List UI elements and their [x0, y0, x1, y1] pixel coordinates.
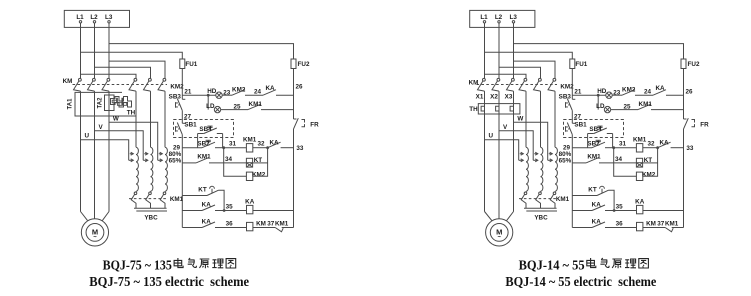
80%% tap stub winding 3 — [549, 153, 553, 155]
wire: phase 1 into motor — [485, 212, 492, 221]
wire: to KM coil — [605, 227, 637, 229]
svg-text:KM2: KM2 — [252, 171, 266, 178]
svg-text:32: 32 — [647, 141, 655, 148]
svg-text:TA1: TA1 — [68, 98, 74, 110]
contact KA (NO) row 29 — [658, 142, 671, 148]
svg-text:36: 36 — [616, 220, 624, 227]
wire: L3 branch to KM2 contact c — [109, 61, 165, 78]
svg-text:HD: HD — [207, 88, 217, 95]
autotransformer YBC winding 2 — [541, 147, 543, 191]
svg-text:TA2: TA2 — [98, 97, 104, 109]
contactor KM2 bypass contact c — [163, 78, 166, 81]
terminal circle L1 — [483, 21, 485, 23]
wire: row 21 to junction — [572, 94, 606, 96]
wire: L2 branch to KM2 contact b — [95, 67, 151, 78]
star contact KM1 winding 3 — [554, 190, 556, 193]
control rail right (from FU2) — [683, 69, 685, 120]
svg-text:KM1: KM1 — [170, 196, 184, 203]
autotransformer YBC winding 1 — [136, 147, 138, 191]
control rail left (from FU1) — [571, 69, 573, 100]
svg-text:FR: FR — [700, 122, 709, 129]
star contact KM1 winding 3 — [164, 190, 166, 193]
wire: phase L1 vertical drop — [80, 23, 82, 79]
wire: to KT coil — [599, 162, 636, 164]
svg-text:SB3: SB3 — [169, 94, 182, 101]
wire: LD branch down — [597, 95, 599, 109]
contact KA (NO) row 36 — [592, 222, 605, 228]
wire: to KM coil — [215, 227, 247, 229]
wire: KA coil to rail — [643, 210, 684, 212]
thermal relay FR contact (NC) on right rail — [684, 118, 687, 120]
80%% tap stub winding 2 — [534, 153, 538, 155]
svg-text:35: 35 — [226, 203, 234, 210]
pushbutton SB2 (NO start) — [592, 142, 605, 148]
contact KA (NO) row 29 — [268, 142, 281, 148]
contact KM1 (NO) in LD row — [638, 104, 651, 110]
svg-text:65%: 65% — [559, 158, 572, 165]
relay coil KA — [637, 205, 643, 213]
indicator lamp HD — [606, 92, 612, 98]
wire: L3 branch to fuse FU2 — [109, 44, 294, 59]
80%% tap stub winding 3 — [159, 153, 163, 155]
svg-text:KA: KA — [659, 139, 669, 146]
svg-text:L3: L3 — [510, 14, 518, 21]
contactor KM main contact phase 3 — [107, 78, 110, 81]
svg-text:KM1: KM1 — [275, 220, 289, 227]
wire U: motor tap to 65% tap of coil 1 — [81, 140, 129, 161]
wire V: motor tap to 65% tap of coil 2 — [499, 131, 533, 161]
80%% tap stub winding 1 — [520, 153, 524, 155]
svg-text:KA: KA — [265, 85, 275, 92]
contactor KM main contact phase 3 — [512, 78, 515, 81]
pushbutton SB4 (NO) — [594, 128, 607, 134]
pushbutton SB3 (NC, on rail) — [572, 98, 575, 100]
star contact KM1 winding 1 — [135, 190, 137, 193]
wire: KM2 coil right + up to node 32 — [643, 148, 658, 177]
svg-text:65%: 65% — [169, 158, 182, 165]
svg-text:LD: LD — [596, 103, 605, 110]
motor M inner circle — [86, 224, 104, 242]
pushbutton SB2 (NO start) — [202, 142, 215, 148]
svg-text:34: 34 — [615, 156, 623, 163]
wire: phase L3 vertical drop — [108, 23, 110, 79]
star point bar — [134, 207, 167, 209]
svg-text:KM1: KM1 — [633, 136, 647, 143]
parallel pushbutton SB4 branch — [587, 134, 589, 148]
svg-text:34: 34 — [225, 156, 233, 163]
control rail left (from FU1) — [181, 69, 183, 100]
contactor KM main contact phase 2 — [93, 78, 96, 81]
wire: HD row cont. — [635, 94, 653, 96]
svg-text:37: 37 — [657, 220, 665, 227]
wire: SB2 to node 31 — [215, 147, 224, 149]
junction node HD/LD — [207, 94, 210, 97]
svg-text:25: 25 — [233, 104, 241, 111]
TH heater element phase 3 — [510, 106, 513, 111]
wire: KT-delay row from rail — [182, 195, 207, 197]
contactor coil KM1 — [246, 144, 252, 152]
wire: KM coil to KM1 interlock — [253, 227, 275, 229]
svg-text:~: ~ — [93, 235, 97, 241]
RIGHT DIAGRAM: BQJ-14~55 starter schematic — [469, 10, 710, 288]
autotransformer YBC winding 1 — [526, 147, 528, 191]
KM1 star contacts dashed link — [129, 198, 167, 200]
svg-text:L1: L1 — [76, 14, 84, 21]
svg-text:TH: TH — [127, 110, 136, 117]
contactor KM main contact phase 1 — [483, 78, 486, 81]
svg-text:KA: KA — [202, 218, 212, 225]
svg-text:SB2: SB2 — [587, 140, 600, 147]
svg-text:FU2: FU2 — [688, 61, 700, 68]
wire: 31 to KM1 coil — [224, 147, 247, 149]
svg-text:~: ~ — [497, 235, 501, 241]
svg-text:KM1: KM1 — [243, 136, 257, 143]
wire: KM1 coil to node 32 — [643, 147, 658, 149]
time-delay contact KT (NC, delayed) — [597, 190, 609, 195]
svg-text:37: 37 — [267, 220, 275, 227]
wire: phase 1 conductor to motor — [80, 91, 82, 211]
wire: KM coil to KM1 interlock — [643, 227, 665, 229]
junction node 32 — [266, 146, 269, 149]
contact KA (NO) row 35 — [592, 205, 605, 211]
wire: KT contact to KA row — [219, 190, 225, 210]
svg-text:KM: KM — [256, 220, 266, 227]
svg-text:LD: LD — [206, 103, 215, 110]
wire: phase 3 into motor — [102, 212, 109, 221]
time relay coil KT — [246, 158, 252, 167]
svg-text:BQJ-75 ~ 135 electric scheme: BQJ-75 ~ 135 electric scheme — [89, 274, 249, 289]
wire: phase 3 into motor — [507, 212, 514, 221]
svg-text:U: U — [85, 133, 90, 140]
wire V: motor tap to 65% tap of coil 2 — [95, 131, 144, 161]
80%% tap stub winding 1 — [130, 153, 134, 155]
svg-text:SB4: SB4 — [589, 126, 602, 133]
contactor KM2 bypass contact c — [553, 78, 556, 81]
LEFT DIAGRAM: BQJ-75~135 starter schematic — [63, 10, 320, 288]
contact KM2 (NO) in HD row — [622, 90, 635, 96]
indicator lamp LD — [604, 106, 610, 112]
star point bar 2 — [526, 210, 557, 212]
wire: phase 1 conductor to motor — [484, 91, 486, 211]
contactor KM main contact phase 2 — [497, 78, 500, 81]
pushbutton SB3 (NC, on rail) — [182, 98, 185, 100]
svg-text:SB3: SB3 — [559, 94, 572, 101]
star contact KM1 winding 1 — [525, 190, 527, 193]
wire: KM2 coil right + up to node 32 — [253, 148, 268, 177]
time relay coil KT — [636, 158, 642, 167]
star contact KM1 winding 2 — [150, 190, 152, 193]
svg-text:SB4: SB4 — [199, 126, 212, 133]
interlock contact KM1 (NC) — [665, 228, 673, 232]
svg-text:FU1: FU1 — [575, 61, 587, 68]
wire: node31 down to KM2 coil — [614, 148, 637, 177]
wire: SB2 to node 31 — [605, 147, 614, 149]
current transformer TA1 box — [75, 92, 136, 116]
svg-text:31: 31 — [229, 141, 237, 148]
autotransformer YBC winding 2 — [151, 147, 153, 191]
svg-text:L2: L2 — [495, 14, 503, 21]
svg-text:24: 24 — [644, 88, 652, 95]
wire: phase 1 into motor — [81, 212, 88, 221]
wire W: motor tap to 65% tap of coil 3 — [514, 122, 548, 160]
svg-text:KM2: KM2 — [642, 171, 656, 178]
svg-text:BQJ-75 ~ 135: BQJ-75 ~ 135 — [103, 257, 173, 272]
wire: HD row — [612, 94, 622, 96]
svg-text:KT: KT — [588, 187, 597, 194]
svg-text:SB1: SB1 — [184, 122, 197, 129]
svg-text:W: W — [517, 115, 523, 122]
wire: LD row — [611, 109, 638, 111]
wire: row 36 from rail — [572, 227, 592, 229]
wire: row 21 to junction — [182, 94, 216, 96]
time-delay contact KT (NC, delayed) — [207, 190, 219, 195]
svg-text:SB1: SB1 — [574, 122, 587, 129]
pushbutton SB4 (NO) — [204, 128, 217, 134]
svg-text:26: 26 — [295, 84, 303, 91]
wire: KA to rail node 33 — [281, 147, 294, 149]
svg-text:26: 26 — [685, 89, 693, 96]
svg-text:KA: KA — [655, 85, 665, 92]
svg-text:KM: KM — [646, 220, 656, 227]
junction node HD/LD — [597, 94, 600, 97]
parallel pushbutton SB4 branch — [197, 134, 199, 148]
svg-text:KM1: KM1 — [639, 101, 653, 108]
current transformer TA2 box — [105, 95, 115, 111]
80%% tap stub winding 2 — [144, 153, 148, 155]
fuse FU1 — [180, 59, 185, 69]
svg-text:31: 31 — [619, 141, 627, 148]
wire: KA to rail node 33 — [671, 147, 684, 149]
svg-text:25: 25 — [623, 104, 631, 111]
svg-text:21: 21 — [574, 89, 582, 96]
KM contact group dashed link — [477, 84, 558, 86]
terminal circle L3 — [512, 21, 514, 23]
contact KM1 (NO) in LD row — [248, 104, 261, 110]
contactor KM2 bypass contact b — [149, 78, 152, 81]
svg-text:21: 21 — [184, 89, 192, 96]
TH heater element phase 1 — [481, 106, 484, 111]
wire: L1 branch to KM2 contact a — [485, 74, 527, 78]
svg-text:L2: L2 — [90, 14, 98, 21]
svg-text:33: 33 — [686, 145, 694, 152]
wire: LD branch down — [207, 95, 209, 109]
svg-text:TH: TH — [469, 106, 478, 113]
wire: phase 2 conductor to motor — [498, 91, 500, 219]
contactor coil KM — [637, 222, 643, 230]
contact KM2 (NO) in HD row — [232, 90, 245, 96]
wire: row 36 from rail — [182, 227, 202, 229]
svg-text:KA: KA — [592, 201, 602, 208]
svg-text:36: 36 — [226, 220, 234, 227]
contactor KM2 bypass contact a — [524, 78, 527, 81]
fuse FU2 — [291, 59, 296, 69]
terminal circle L1 — [79, 21, 81, 23]
svg-text:KA: KA — [202, 201, 212, 208]
svg-text:X2: X2 — [490, 94, 498, 101]
wire: LD row to rail — [651, 109, 684, 111]
wire: HD row cont. — [245, 94, 263, 96]
terminal circle L2 — [498, 21, 500, 23]
svg-text:FR: FR — [310, 122, 319, 129]
svg-text:FU2: FU2 — [298, 61, 310, 68]
junction node 31 — [222, 146, 225, 149]
motor M outer circle — [81, 219, 108, 246]
wire: to KT coil — [209, 162, 246, 164]
wire: KT-delay row from rail — [572, 195, 597, 197]
wire: L1 branch to fuse FU1 — [485, 52, 573, 59]
relay coil KA — [247, 205, 253, 213]
svg-text:KM1: KM1 — [197, 154, 211, 161]
wire U: motor tap to 65% tap of coil 1 — [485, 140, 519, 161]
dashed enclosure SB1/SB4 — [564, 120, 624, 138]
svg-text:KM: KM — [63, 78, 73, 85]
wire: phase 3 conductor to motor — [108, 91, 110, 211]
wire: KT contact to KA row — [609, 190, 615, 210]
wire: row 35 from rail — [572, 210, 592, 212]
svg-text:KA: KA — [269, 139, 279, 146]
svg-text:BQJ-14 ~ 55: BQJ-14 ~ 55 — [519, 257, 585, 272]
indicator lamp LD — [214, 106, 220, 112]
svg-text:W: W — [113, 115, 119, 122]
svg-text:L1: L1 — [480, 14, 488, 21]
right diagram: three-phase supply terminal box L1 L2 L3 — [470, 10, 535, 27]
svg-text:KM1: KM1 — [249, 101, 263, 108]
thermal relay FR contact (NC) on right rail — [294, 118, 297, 120]
wire: LD row — [221, 109, 248, 111]
svg-text:KA: KA — [245, 198, 255, 205]
star contact KM1 winding 2 — [540, 190, 542, 193]
wire: KT coil right — [643, 162, 658, 164]
interlock contact KM1 (NC) — [275, 228, 283, 232]
wire: L1 branch to KM2 contact a — [81, 74, 137, 78]
autotransformer YBC winding 3 — [555, 147, 557, 191]
contact KM1 (NO) row 34 — [196, 157, 209, 163]
contact KA (NO) in HD row — [263, 90, 276, 96]
contactor KM main contact phase 1 — [79, 78, 82, 81]
svg-text:KT: KT — [198, 187, 207, 194]
svg-text:L3: L3 — [105, 14, 113, 21]
svg-text:BQJ-14 ~ 55 electric scheme: BQJ-14 ~ 55 electric scheme — [505, 274, 656, 289]
svg-text:KM: KM — [469, 79, 479, 86]
contactor coil KM2 — [246, 172, 252, 180]
fuse FU1 — [570, 59, 575, 69]
svg-text:KM1: KM1 — [587, 154, 601, 161]
svg-text:HD: HD — [597, 88, 607, 95]
pushbutton SB1 (NC, on rail) — [572, 122, 575, 124]
contactor coil KM2 — [636, 172, 642, 180]
contact KA (NO) row 36 — [202, 222, 215, 228]
junction node 31 — [612, 146, 615, 149]
wire: phase L3 vertical drop — [513, 23, 515, 79]
contactor KM2 bypass contact a — [134, 78, 137, 81]
control rail right (from FU2) — [293, 69, 295, 120]
svg-text:35: 35 — [616, 203, 624, 210]
svg-text:YBC: YBC — [144, 215, 158, 222]
KM1 star contacts dashed link — [519, 198, 557, 200]
wire: node31 down to KM2 coil — [224, 148, 247, 177]
wire: row 34 from rail — [182, 162, 196, 164]
svg-text:32: 32 — [257, 141, 265, 148]
svg-text:KA: KA — [635, 198, 645, 205]
wire: 31 to KM1 coil — [614, 147, 637, 149]
wire: phase L2 vertical drop — [94, 23, 96, 79]
pushbutton SB1 (NC, on rail) — [182, 122, 185, 124]
contactor coil KM — [247, 222, 253, 230]
svg-text:24: 24 — [254, 88, 262, 95]
star point bar — [524, 207, 557, 209]
wire W: motor tap to 65% tap of coil 3 — [109, 122, 158, 160]
svg-text:FU1: FU1 — [185, 61, 197, 68]
svg-text:X3: X3 — [505, 94, 513, 101]
wire: HD row to rail — [666, 94, 684, 96]
wire: KA coil to rail — [253, 210, 294, 212]
wire: phase L2 vertical drop — [498, 23, 500, 79]
contactor coil KM1 — [636, 144, 642, 152]
dashed enclosure SB1/SB4 — [174, 120, 234, 138]
wire: L3 branch to fuse FU2 — [514, 44, 684, 59]
wire: HD row — [222, 94, 232, 96]
motor M inner circle — [490, 224, 508, 242]
svg-text:KM1: KM1 — [665, 220, 679, 227]
KM contact group dashed link — [73, 84, 168, 86]
svg-text:KM2: KM2 — [622, 86, 636, 93]
fuse FU2 — [681, 59, 686, 69]
contact KA (NO) row 35 — [202, 205, 215, 211]
wire: L1 branch to fuse FU1 — [81, 52, 183, 59]
wire: KT coil right — [253, 162, 268, 164]
wire: row 29 from rail — [182, 147, 202, 149]
contactor KM2 bypass contact b — [539, 78, 542, 81]
svg-text:KM1: KM1 — [556, 196, 570, 203]
junction node 35 — [605, 210, 637, 212]
thermal relay TH box — [478, 104, 520, 114]
junction node 35 — [215, 210, 247, 212]
motor M outer circle — [486, 219, 513, 246]
star point bar 2 — [136, 210, 167, 212]
contact KM1 (NO) row 34 — [586, 157, 599, 163]
TH heater element phase 2 — [496, 106, 499, 111]
thermal heater element TH meander — [111, 97, 132, 108]
indicator lamp HD — [216, 92, 222, 98]
svg-text:YBC: YBC — [534, 215, 548, 222]
wire: row 35 from rail — [182, 210, 202, 212]
wire: row 34 from rail — [572, 162, 586, 164]
wire: L3 branch to KM2 contact c — [514, 61, 556, 78]
wire: phase 3 conductor to motor — [513, 91, 515, 211]
svg-text:U: U — [489, 133, 494, 140]
contact KA (NO) in HD row — [653, 90, 666, 96]
junction node 32 — [656, 146, 659, 149]
wire: HD row to rail — [276, 94, 294, 96]
svg-text:X1: X1 — [476, 94, 484, 101]
svg-text:KM2: KM2 — [232, 86, 246, 93]
wire: row 29 from rail — [572, 147, 592, 149]
svg-text:33: 33 — [296, 145, 304, 152]
svg-text:KA: KA — [592, 218, 602, 225]
wire: LD row to rail — [261, 109, 294, 111]
wire: phase 2 conductor to motor — [94, 91, 96, 219]
terminal circle L2 — [93, 21, 95, 23]
svg-text:SB2: SB2 — [197, 140, 210, 147]
wire: KM1 coil to node 32 — [253, 147, 268, 149]
left diagram: three-phase supply terminal box L1 L2 L3 — [64, 10, 129, 27]
wire: L2 branch to KM2 contact b — [499, 67, 541, 78]
terminal circle L3 — [108, 21, 110, 23]
wire: phase L1 vertical drop — [484, 23, 486, 79]
autotransformer YBC winding 3 — [165, 147, 167, 191]
